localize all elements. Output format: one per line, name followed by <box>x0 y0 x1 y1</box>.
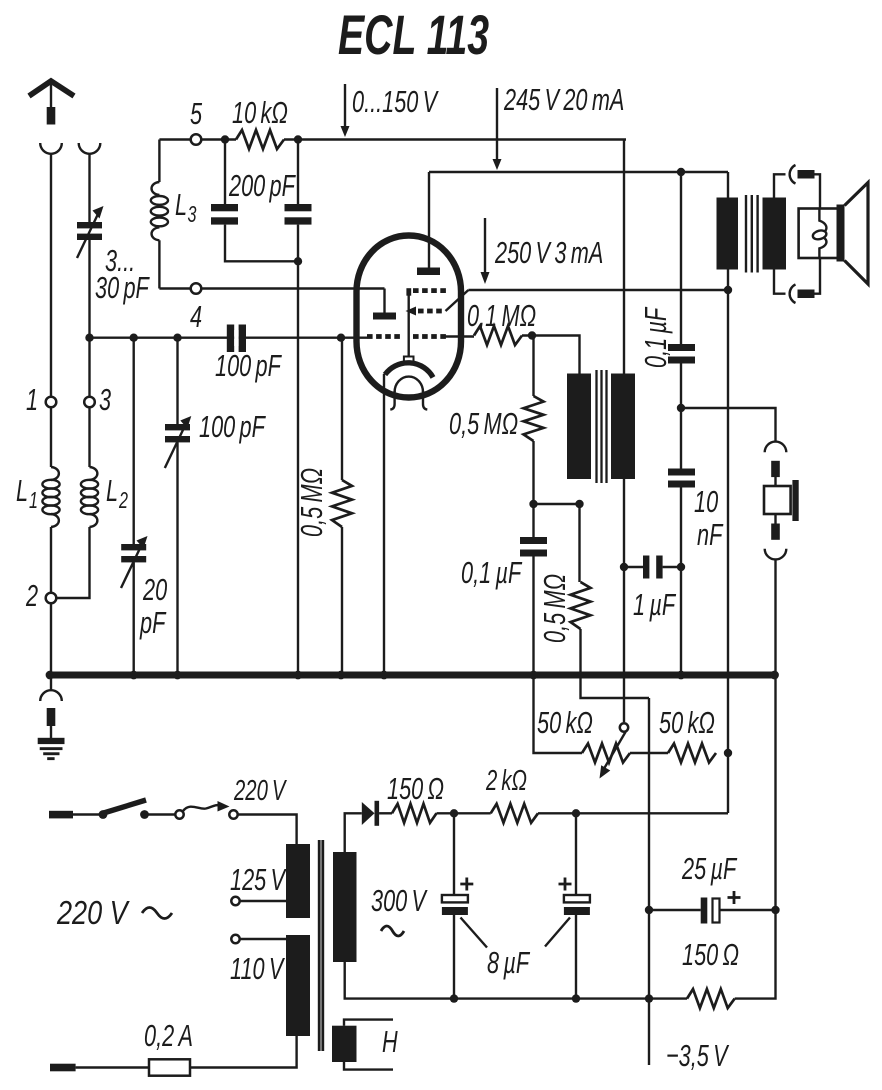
wire rail to pentode anode <box>428 172 430 268</box>
interstage transformer core <box>597 370 607 483</box>
value 100pF <box>199 409 266 444</box>
wire bus to pot left <box>534 678 583 753</box>
wire prong to switch <box>73 813 103 815</box>
wire trimmer to grid node <box>88 240 90 338</box>
svg-text:nF: nF <box>697 517 724 552</box>
junction caps to ground lead <box>294 257 302 265</box>
interstage transformer secondary <box>611 374 635 480</box>
svg-text:10 kΩ: 10 kΩ <box>232 95 288 130</box>
mains plug lower prong <box>50 1064 76 1072</box>
resistor 0,1MOhm <box>474 326 522 345</box>
value 50kOhm <box>537 705 593 740</box>
svg-text:L: L <box>175 187 187 222</box>
wire bias resistor to ground column <box>735 910 776 999</box>
capacitor 10nF <box>668 408 695 567</box>
svg-text:0,5 MΩ: 0,5 MΩ <box>537 574 572 643</box>
pentode anode <box>417 268 440 276</box>
triode anode <box>373 289 396 320</box>
svg-text:0,2 A: 0,2 A <box>144 1018 193 1053</box>
mains plug upper prong <box>49 811 73 819</box>
node 1uF right <box>677 563 685 571</box>
svg-text:300 V: 300 V <box>371 883 428 918</box>
terminal 2 <box>46 593 57 604</box>
speaker jack top <box>774 165 820 209</box>
selector contact left <box>175 810 183 818</box>
svg-text:20: 20 <box>142 572 167 607</box>
value 10nF <box>694 484 724 552</box>
title ECL 113 <box>338 4 489 67</box>
ground jack <box>40 678 62 701</box>
svg-text:25 µF: 25 µF <box>681 851 737 886</box>
tube ECL113 envelope <box>357 236 462 398</box>
node headphone tap <box>677 404 685 412</box>
wire L2 to terminal 2 <box>56 527 89 598</box>
wire antenna right down to trimmer <box>88 154 90 222</box>
supply arrow 250V 3mA <box>481 218 490 284</box>
wire 2k to B+ riser <box>538 812 728 814</box>
svg-text:2: 2 <box>118 488 128 513</box>
capacitor 100pF coupling <box>227 325 246 353</box>
label 300V <box>371 883 428 918</box>
variable capacitor 20pF <box>121 338 148 675</box>
output transformer secondary <box>763 198 787 270</box>
tap 110V <box>231 935 286 943</box>
node filter cap 1 <box>450 809 458 817</box>
label 220V <box>233 775 287 807</box>
wire L3 top to terminal 5 <box>159 138 191 140</box>
pentode screen grid g2 (dashed with arrow) <box>406 290 469 316</box>
capacitor 200pF left <box>211 140 298 262</box>
node pot right / B+ <box>724 749 732 757</box>
svg-text:250 V 3 mA: 250 V 3 mA <box>494 235 603 270</box>
output transformer core <box>746 195 758 273</box>
antenna <box>29 81 74 125</box>
svg-text:220 V: 220 V <box>233 775 287 807</box>
node grid resistor / transformer <box>528 331 536 339</box>
node 8uF-2 bottom <box>572 994 580 1002</box>
antenna socket left <box>40 143 62 154</box>
wire to first filter node <box>437 812 491 814</box>
wire diode to resistor <box>379 812 392 814</box>
svg-text:245 V 20 mA: 245 V 20 mA <box>503 82 624 117</box>
value 0,2A <box>144 1018 193 1053</box>
label 250V 3mA <box>494 235 603 270</box>
pentode suppressor g3 (dashed) <box>404 288 446 361</box>
wire 200pF junction down to bus <box>297 261 299 675</box>
bus junction x=50 <box>46 671 55 680</box>
node 1uF left <box>620 563 628 571</box>
wire L3 bottom to terminal 4 <box>159 287 191 289</box>
svg-text:50 kΩ: 50 kΩ <box>659 705 715 740</box>
value 0,5MOhm <box>449 406 518 441</box>
node 100pF tap <box>173 334 181 342</box>
headphone jack bottom <box>765 549 787 560</box>
power transformer core <box>319 840 323 1051</box>
svg-text:110 V: 110 V <box>230 951 285 986</box>
label 110V <box>230 951 285 986</box>
B+ riser wire <box>727 290 729 813</box>
mains switch <box>99 800 176 819</box>
svg-text:125 V: 125 V <box>230 862 287 897</box>
wire L1 to terminal 2 <box>50 527 52 593</box>
antenna socket right <box>79 143 101 154</box>
anode rail 245V <box>429 171 728 173</box>
wire primary bottom to fuse <box>190 1036 297 1068</box>
value 150Ohm <box>387 771 444 806</box>
capacitor 0,1uF output coupling <box>668 172 695 408</box>
pot wiper terminal <box>620 723 628 731</box>
node 25uF right <box>771 906 779 914</box>
capacitor 0,1uF cathode-ground <box>520 504 547 675</box>
wire terminal3 to L2 <box>88 407 90 467</box>
variable capacitor 100pF <box>165 338 192 675</box>
power transformer secondary 300V <box>333 852 357 962</box>
value 200pF <box>228 168 296 203</box>
wire bus end down <box>774 678 776 910</box>
wire terminal 5 to resistor <box>201 138 236 140</box>
wire grid node to terminal 3 <box>88 338 90 397</box>
wire secondary top to 0-150V line <box>623 140 625 374</box>
svg-text:2 kΩ: 2 kΩ <box>485 765 527 797</box>
value 10kOhm <box>232 95 288 130</box>
svg-text:0,1 µF: 0,1 µF <box>461 555 523 590</box>
wire between pot halves <box>630 752 668 754</box>
resistor 150Ohm bias <box>687 989 735 1008</box>
cathode <box>384 363 433 675</box>
node cap junction left <box>529 500 537 508</box>
svg-text:1: 1 <box>26 382 38 417</box>
heater winding H <box>332 1020 393 1070</box>
value 0,1uF (rotated) <box>638 306 673 368</box>
coil L2 <box>81 467 98 527</box>
capacitor 25uF <box>649 891 776 924</box>
electrolytic 8uF second <box>545 813 590 998</box>
capacitor 200pF right <box>285 140 312 262</box>
node 20pF tap <box>130 334 138 342</box>
pentode grid g1 (dashed) <box>413 334 446 339</box>
tap 125V <box>231 897 286 905</box>
ground bus <box>50 672 776 679</box>
svg-text:1 µF: 1 µF <box>633 587 677 622</box>
junction screen rail / output transformer <box>724 286 732 294</box>
value 1uF <box>633 587 677 622</box>
wire g1 to grid resistor <box>445 335 474 337</box>
node transformer primary bottom <box>575 500 583 508</box>
tilde mains <box>142 908 172 919</box>
supply arrow 245V 20mA <box>493 88 502 170</box>
supply arrow 0...150V <box>341 84 350 137</box>
svg-text:0,5 MΩ: 0,5 MΩ <box>449 406 518 441</box>
bus junction x=298 <box>294 671 303 680</box>
bus junction x=177.5 <box>173 671 182 680</box>
svg-text:L: L <box>16 473 28 508</box>
terminal 5 <box>191 134 202 145</box>
coil L1 <box>42 467 59 527</box>
resistor 10kOhm <box>236 130 284 149</box>
triode grid (dashed) <box>367 334 400 339</box>
svg-text:8 µF: 8 µF <box>487 945 531 980</box>
svg-text:1: 1 <box>29 488 38 513</box>
wire tap to headphone <box>681 408 776 441</box>
junction node right of 10k <box>294 135 302 143</box>
bus junction x=681 <box>677 671 686 680</box>
trimmer capacitor 3...30pF <box>77 206 104 258</box>
label 5 <box>190 96 202 131</box>
wire terminal 2 to bus <box>50 603 52 675</box>
ground plug <box>47 708 56 738</box>
wire fuse to lower prong <box>76 1066 149 1068</box>
resistor 2kOhm <box>491 804 538 823</box>
svg-text:200 pF: 200 pF <box>228 168 296 203</box>
heater filament <box>390 377 427 410</box>
wire terminal1 to L1 <box>50 407 52 467</box>
speaker jack bottom <box>774 258 820 303</box>
ground (earth bars) <box>38 738 65 760</box>
bus junction x=533.5 <box>529 671 538 680</box>
value 0,1MOhm <box>467 298 536 333</box>
value 25uF <box>681 851 737 886</box>
rectifier diode <box>362 801 379 826</box>
label L1 <box>16 473 38 514</box>
node bias feed <box>645 994 653 1002</box>
svg-text:150 Ω: 150 Ω <box>387 771 444 806</box>
value 20pF <box>139 572 167 640</box>
coil L3 <box>151 140 168 289</box>
node trimmer/grid <box>85 334 93 342</box>
power transformer primary upper <box>286 844 310 918</box>
svg-text:3: 3 <box>99 382 111 417</box>
bus junction x=341 <box>337 671 346 680</box>
value 0,5MOhm (rotated) <box>294 468 329 537</box>
resistor 0,5MOhm grid leak <box>332 338 352 675</box>
svg-text:H: H <box>382 1024 398 1059</box>
value 2kOhm <box>485 765 527 797</box>
interstage transformer primary <box>567 374 591 480</box>
loudspeaker <box>799 183 868 285</box>
wire headphone to bus <box>774 560 776 676</box>
wire antenna left down to terminal 1 <box>50 154 52 397</box>
junction anode rail / coupling cap <box>677 168 685 176</box>
node grid leak tap <box>337 334 345 342</box>
label L3 <box>175 187 196 228</box>
headphone jack top <box>765 442 787 453</box>
tuned grid line <box>90 337 368 339</box>
output transformer primary <box>717 172 739 290</box>
label -3,5V <box>666 1038 729 1073</box>
power transformer primary lower <box>286 935 310 1036</box>
potentiometer 50kOhm left half <box>582 744 630 763</box>
svg-text:10: 10 <box>694 484 718 519</box>
resistor 150Ohm smoothing <box>392 804 437 823</box>
svg-text:4: 4 <box>190 299 202 334</box>
wire terminal 4 to triode anode <box>201 287 384 289</box>
value 50kOhm <box>659 705 715 740</box>
terminal 3 <box>84 397 95 408</box>
selector contact 220V <box>229 810 237 818</box>
label 245V 20mA <box>503 82 624 117</box>
value 0,1uF <box>461 555 523 590</box>
terminal 1 <box>46 397 57 408</box>
headphone earpiece <box>764 480 799 521</box>
svg-text:−3,5 V: −3,5 V <box>666 1038 729 1073</box>
wire bias feed down <box>648 698 650 1065</box>
fuse 0,2A <box>149 1059 190 1075</box>
junction node left of 10k <box>221 135 229 143</box>
svg-text:0...150 V: 0...150 V <box>352 84 439 119</box>
headphone plug top <box>771 461 780 486</box>
headphone plug bottom <box>771 514 780 540</box>
wire junction to transformer bottom <box>534 503 580 505</box>
value 8uF <box>487 945 531 980</box>
wire secondary top to diode <box>345 813 362 852</box>
label 4 <box>190 299 202 334</box>
bus junction x=774.5 <box>770 671 779 680</box>
svg-text:220 V: 220 V <box>56 896 130 932</box>
svg-text:L: L <box>106 473 118 508</box>
bias line -3,5V <box>345 962 687 999</box>
node 8uF-1 bottom <box>450 994 458 1002</box>
bus junction x=384 <box>380 671 389 680</box>
svg-text:0,1 MΩ: 0,1 MΩ <box>467 298 536 333</box>
capacitor 1uF <box>624 556 681 579</box>
label 1 <box>26 382 38 417</box>
label H <box>382 1024 398 1059</box>
wire secondary bottom to wiper <box>623 479 625 722</box>
resistor 0,5MOhm upper <box>524 336 544 505</box>
value 0,5MOhm (rotated) <box>537 574 572 643</box>
resistor 50kOhm right half <box>668 744 716 763</box>
wire 1uF node to bus <box>680 567 682 675</box>
svg-text:5: 5 <box>190 96 202 131</box>
node 25uF left <box>645 906 653 914</box>
label 125V <box>230 862 287 897</box>
bus junction x=133.7 <box>129 671 138 680</box>
svg-text:50 kΩ: 50 kΩ <box>537 705 593 740</box>
svg-text:ECL 113: ECL 113 <box>338 4 489 67</box>
label 3 <box>99 382 111 417</box>
svg-text:150 Ω: 150 Ω <box>682 937 739 972</box>
tilde 300V <box>381 926 404 936</box>
value 100pF <box>215 348 282 383</box>
svg-text:2: 2 <box>25 578 38 613</box>
label 2 <box>25 578 38 613</box>
electrolytic 8uF first <box>442 813 487 998</box>
wire node to transformer primary top <box>522 336 580 374</box>
value 150Ohm <box>682 937 739 972</box>
value 3...30pF <box>95 243 150 305</box>
svg-text:0,5 MΩ: 0,5 MΩ <box>294 468 329 537</box>
svg-text:0,1 µF: 0,1 µF <box>638 306 673 368</box>
svg-text:100 pF: 100 pF <box>215 348 282 383</box>
pot wiper arrow <box>600 732 626 779</box>
label 0...150V <box>352 84 439 119</box>
screen rail 250V <box>468 289 728 291</box>
wire 10k to screen feed line <box>284 138 626 140</box>
svg-text:30 pF: 30 pF <box>95 270 150 305</box>
label L2 <box>106 473 128 514</box>
svg-text:100 pF: 100 pF <box>199 409 266 444</box>
svg-text:pF: pF <box>139 605 166 640</box>
resistor 0,5MOhm lower (bias feed) <box>571 504 650 698</box>
svg-text:3: 3 <box>188 202 197 227</box>
node filter cap 2 <box>572 809 580 817</box>
selector arrow <box>183 801 230 812</box>
wire 220V tap to transformer <box>238 815 297 845</box>
terminal 4 <box>191 283 202 294</box>
label 220V mains <box>56 896 130 932</box>
